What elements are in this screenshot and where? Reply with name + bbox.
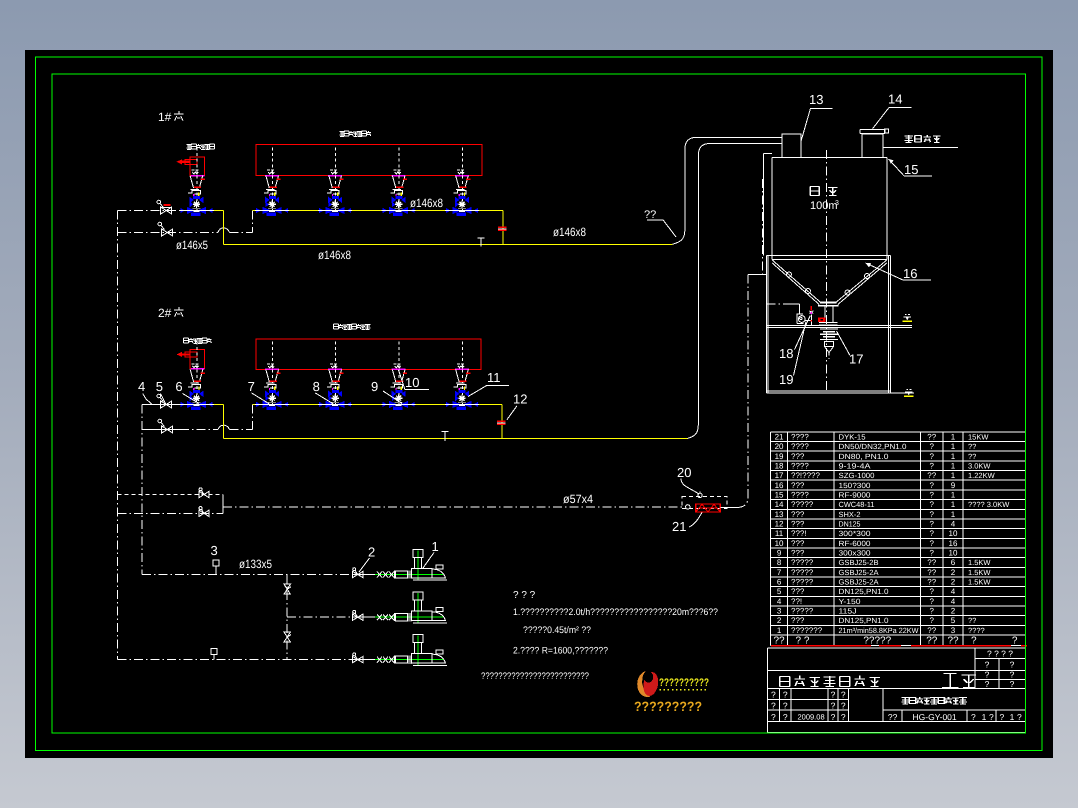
svg-text:?: ? — [831, 700, 836, 710]
svg-text:17: 17 — [775, 471, 784, 480]
svg-text:?????0.45t/m² ??: ?????0.45t/m² ?? — [523, 625, 591, 636]
svg-text:19: 19 — [775, 452, 784, 461]
svg-text:100m: 100m — [810, 200, 838, 212]
pipe yellow row2 manifold — [252, 403, 502, 405]
label 2#炉 — [158, 306, 183, 320]
svg-text:ø133x5: ø133x5 — [239, 557, 272, 571]
wire pump line 2 — [287, 616, 352, 618]
svg-text:2: 2 — [951, 568, 956, 577]
svg-text:6: 6 — [951, 558, 956, 567]
hopper H2-2 with discharge valves — [318, 341, 352, 410]
silo label 灰库 — [810, 187, 837, 196]
svg-text:???: ??? — [791, 452, 805, 461]
svg-text:9: 9 — [371, 379, 378, 394]
svg-text:??: ?? — [644, 209, 656, 221]
svg-text:1: 1 — [951, 452, 956, 461]
svg-text:12: 12 — [775, 520, 784, 529]
silo discharge flange — [818, 303, 839, 306]
svg-text:ø146x5: ø146x5 — [176, 238, 208, 252]
svg-text:GSBJ25-2B: GSBJ25-2B — [839, 558, 879, 567]
pipe yellow solo outlet to downleg — [214, 211, 224, 245]
callout 20 — [677, 465, 699, 494]
silo label 100m3 — [810, 200, 839, 212]
magenta liner under box row2 — [392, 368, 406, 370]
svg-text:20: 20 — [677, 465, 691, 480]
hopper group box row1 (red) — [256, 144, 482, 175]
pipe yellow row2 downleg — [501, 404, 503, 438]
silo centerline — [826, 150, 828, 390]
svg-text:?: ? — [841, 700, 846, 710]
svg-text:?: ? — [930, 616, 935, 625]
svg-text:1: 1 — [951, 462, 956, 471]
svg-text:9-19-4A: 9-19-4A — [839, 462, 871, 471]
svg-text:??: ?? — [773, 635, 785, 646]
svg-text:21: 21 — [672, 519, 686, 534]
svg-text:18: 18 — [775, 462, 784, 471]
cone aeration nozzles (circles) — [787, 272, 870, 295]
svg-text:?: ? — [1012, 635, 1018, 646]
svg-text:?: ? — [989, 712, 994, 722]
svg-text:15: 15 — [775, 491, 784, 500]
svg-text:??: ?? — [927, 626, 936, 635]
wire discharge air line (dash-dot x=747.9 down to feeder) — [739, 275, 748, 508]
svg-text:??: ?? — [888, 712, 898, 722]
svg-text:1: 1 — [432, 539, 439, 554]
svg-text:??: ?? — [968, 616, 976, 625]
valve V-r1a with flag — [157, 200, 172, 214]
elevation marker (platform) — [903, 314, 913, 322]
valve V-r2b with flag — [158, 419, 173, 433]
svg-text:??!????: ??!???? — [791, 471, 820, 480]
svg-text:16: 16 — [949, 539, 958, 548]
svg-text:10: 10 — [405, 375, 419, 390]
svg-text:10: 10 — [949, 549, 958, 558]
small red box + arrow row2 — [177, 352, 198, 357]
wire bypass dashed line y=494.5 — [117, 494, 223, 496]
company logo flame — [637, 671, 660, 698]
title block texts — [771, 690, 1022, 722]
silo skirt ring — [766, 255, 890, 259]
callout 11 — [468, 370, 509, 397]
pipe yellow row2 conveying line — [224, 438, 688, 440]
hopper group box row2 (red) — [256, 339, 481, 369]
svg-text:DYK-15: DYK-15 — [839, 433, 866, 442]
valve V-r2a with flag — [157, 394, 172, 408]
svg-text:?: ? — [841, 690, 846, 700]
wire pump line 3 — [117, 659, 352, 661]
svg-text:2009.08: 2009.08 — [798, 713, 825, 722]
svg-text:1: 1 — [982, 712, 987, 722]
svg-text:4: 4 — [138, 379, 145, 394]
svg-text:? ?: ? ? — [796, 635, 810, 646]
svg-text:??!: ??! — [791, 597, 802, 606]
hopper H1-0 (economizer) with discharge valves — [179, 148, 213, 217]
svg-text:2: 2 — [951, 607, 956, 616]
svg-text:2#: 2# — [158, 306, 172, 320]
rotary feeder (red) — [696, 504, 721, 512]
svg-text:???????: ??????? — [791, 626, 823, 635]
border inner green frame — [52, 74, 1026, 733]
callout 14 — [873, 92, 912, 129]
svg-text:18: 18 — [779, 346, 793, 361]
wire crossover hump over yellow riser — [218, 228, 230, 232]
elevation marker (ground) — [904, 389, 914, 397]
magenta liner under box — [455, 175, 469, 177]
gauge G2 — [211, 648, 217, 659]
svg-text:DN80, PN1.0: DN80, PN1.0 — [839, 452, 889, 461]
svg-text:4: 4 — [951, 587, 956, 596]
hopper H2-0 (economizer) with discharge valves — [180, 341, 214, 410]
svg-text:1.5KW: 1.5KW — [968, 558, 991, 567]
svg-text:?????: ????? — [791, 500, 814, 509]
label row2 hopper group (tiny) — [334, 324, 371, 329]
callout ?? (riser) — [644, 209, 676, 237]
svg-text:??: ?? — [926, 635, 938, 646]
svg-text:?: ? — [930, 500, 935, 509]
svg-text:???: ??? — [791, 510, 805, 519]
svg-text:?: ? — [930, 462, 935, 471]
feeder inlet valve (circle) — [686, 505, 690, 509]
svg-text:13: 13 — [809, 92, 823, 107]
wire feeder outlet — [720, 506, 739, 508]
label project name 热电站气力输灰 — [779, 676, 880, 687]
svg-text:????: ???? — [791, 462, 809, 471]
svg-text:1.5KW: 1.5KW — [968, 568, 991, 577]
small red box + arrow row1 — [177, 159, 198, 164]
svg-text:????: ???? — [791, 442, 809, 451]
magenta liner under box — [392, 175, 406, 177]
callout 16 — [866, 263, 932, 281]
wire dashdot line y=513.3 — [117, 512, 223, 514]
level instrument stem — [809, 306, 813, 325]
svg-text:?: ? — [930, 529, 935, 538]
wire pump cross header x=287.2 — [286, 575, 288, 660]
svg-text:GSBJ25-2A: GSBJ25-2A — [839, 578, 879, 587]
valve V-x2 (vertical) — [284, 632, 291, 642]
svg-text:?????????: ????????? — [634, 699, 702, 714]
svg-text:13: 13 — [775, 510, 784, 519]
svg-text:1: 1 — [1010, 712, 1015, 722]
pipe yellow row1 manifold downleg — [502, 211, 504, 245]
svg-text:1: 1 — [951, 471, 956, 480]
wire jumper y=274.7 — [748, 274, 766, 276]
svg-text:6: 6 — [777, 578, 782, 587]
svg-text:?????????????????????????: ????????????????????????? — [481, 671, 589, 682]
svg-text:2: 2 — [368, 545, 375, 560]
svg-text:??: ?? — [927, 558, 936, 567]
svg-text:15: 15 — [904, 162, 918, 177]
svg-text:300x300: 300x300 — [839, 549, 871, 558]
hopper H1-3 with discharge valves — [382, 148, 416, 217]
wire riser to manifold (dash-dot vertical x=252.4) — [251, 211, 253, 233]
wire riser x=252.4 row2 — [251, 404, 253, 429]
svg-text:? ? ? ?: ? ? ? ? — [987, 649, 1013, 659]
svg-text:???: ??? — [791, 481, 805, 490]
BOM header row — [773, 635, 1017, 646]
svg-text:1.5KW: 1.5KW — [968, 578, 991, 587]
valve V-x1 (vertical) — [284, 584, 291, 594]
svg-text:14: 14 — [888, 92, 902, 107]
callout 1 — [423, 539, 439, 568]
callout 18 — [779, 316, 810, 362]
callout 6 — [175, 379, 199, 404]
wire row2 header line start corner x=142 — [142, 403, 214, 405]
callout 12 — [507, 392, 527, 420]
pipe riser from row1 line to silo inlet — [673, 137, 783, 244]
magenta liner solo row1 — [191, 175, 205, 177]
svg-text:?: ? — [930, 597, 935, 606]
svg-text:???: ??? — [791, 520, 805, 529]
gauge G1 — [213, 560, 219, 575]
svg-text:12: 12 — [513, 392, 527, 407]
svg-text:4: 4 — [951, 520, 956, 529]
svg-text:?: ? — [1000, 712, 1005, 722]
svg-text:8: 8 — [777, 558, 782, 567]
svg-text:?????: ????? — [791, 558, 814, 567]
svg-text:5: 5 — [777, 587, 782, 596]
callout 4 — [138, 379, 152, 404]
wire connector x=223 — [222, 495, 224, 514]
svg-text:2: 2 — [777, 616, 782, 625]
callout 19 — [779, 322, 806, 388]
svg-text:3: 3 — [951, 626, 956, 635]
svg-text:???: ??? — [791, 587, 805, 596]
wire row1 bypass line (dash-dot) y=232.3 — [117, 231, 218, 233]
svg-text:17: 17 — [849, 352, 863, 367]
svg-text:?: ? — [831, 690, 836, 700]
svg-text:10: 10 — [949, 529, 958, 538]
svg-text:??: ?? — [968, 442, 976, 451]
BOM table texts — [775, 433, 1011, 635]
wire air line upper (dash-dot x=762.5) — [762, 179, 764, 275]
svg-text:3: 3 — [211, 543, 218, 558]
wire row1 solo hopper outlet (white) — [186, 210, 214, 212]
title block grid — [768, 648, 1026, 733]
svg-text:RF-6000: RF-6000 — [839, 539, 871, 548]
orifice fitting row2 (red flanges) — [497, 421, 506, 424]
svg-text:ø57x4: ø57x4 — [563, 492, 593, 506]
wire row1 header line (dash-dot) y=210.5 — [117, 210, 186, 212]
svg-text:?: ? — [783, 712, 788, 722]
conveying pump P1 with inlet valve — [352, 550, 447, 581]
svg-text:Y-150: Y-150 — [839, 597, 861, 606]
svg-text:9: 9 — [777, 549, 782, 558]
callout 10 — [399, 370, 430, 390]
hopper H1-1 with discharge valves — [255, 148, 289, 217]
callout 9 — [371, 379, 402, 404]
svg-text:?????: ????? — [863, 635, 891, 646]
label 1#炉 — [158, 110, 183, 124]
svg-text:DN50/DN32,PN1.0: DN50/DN32,PN1.0 — [839, 442, 907, 451]
pipe back-blow air line — [883, 146, 958, 148]
svg-text:?: ? — [930, 587, 935, 596]
svg-text:?: ? — [1017, 712, 1022, 722]
svg-text:150?300: 150?300 — [839, 481, 871, 490]
svg-text:GSBJ25-2A: GSBJ25-2A — [839, 568, 879, 577]
valve V-byp1 — [199, 488, 209, 498]
svg-text:1: 1 — [951, 491, 956, 500]
svg-text:HG-GY-001: HG-GY-001 — [913, 712, 957, 722]
svg-text:RF-9000: RF-9000 — [839, 491, 871, 500]
svg-text:?: ? — [831, 712, 836, 722]
svg-text:?????: ????? — [791, 578, 814, 587]
svg-text:6: 6 — [175, 379, 182, 394]
callout 7 — [248, 379, 270, 404]
svg-text:???!: ???! — [791, 529, 807, 538]
label 反吹气源 — [904, 135, 940, 142]
svg-text:?: ? — [930, 481, 935, 490]
svg-text:4: 4 — [777, 597, 782, 606]
red separator dashes — [771, 645, 1027, 647]
logo company name (yellow) — [659, 677, 709, 690]
svg-text:9: 9 — [951, 481, 956, 490]
svg-text:2: 2 — [951, 578, 956, 587]
callout 21 — [672, 513, 702, 535]
svg-text:?: ? — [971, 635, 977, 646]
svg-text:??: ?? — [927, 568, 936, 577]
flexible bellows connector — [820, 329, 838, 359]
silo body 灰库 — [772, 158, 887, 260]
svg-text:?: ? — [985, 679, 990, 689]
fitting red cap above valve — [162, 205, 172, 208]
svg-text:ø146x8: ø146x8 — [553, 225, 586, 239]
svg-text:?: ? — [783, 700, 788, 710]
label drawing title 气力除灰工艺流程图 — [901, 697, 966, 704]
svg-text:?: ? — [985, 660, 990, 670]
valve V-byp2 — [199, 507, 209, 517]
svg-text:?: ? — [930, 510, 935, 519]
magenta liner under box row2 — [455, 368, 469, 370]
svg-text:16: 16 — [775, 481, 784, 490]
wire pump line 1 — [142, 574, 352, 576]
svg-text:4: 4 — [951, 597, 956, 606]
nozzle 14 flange cap — [860, 129, 889, 133]
svg-text:1: 1 — [951, 433, 956, 442]
svg-text:5: 5 — [156, 379, 163, 394]
conveying pump P2 with inlet valve — [352, 592, 447, 623]
svg-text:15KW: 15KW — [968, 433, 989, 442]
svg-text:?: ? — [771, 712, 776, 722]
svg-text:?: ? — [783, 690, 788, 700]
callout 2 — [359, 545, 375, 573]
notes line 2 — [523, 625, 591, 636]
svg-text:??: ?? — [968, 452, 976, 461]
callout 8 — [313, 379, 334, 404]
wire second left header (dash-dot vertical x=142) — [141, 404, 143, 574]
svg-text:???: ??? — [791, 539, 805, 548]
svg-text:CWC48-11: CWC48-11 — [839, 500, 875, 509]
drain tee symbol on row1 line — [478, 238, 485, 247]
svg-text:1: 1 — [951, 500, 956, 509]
svg-text:20: 20 — [775, 442, 784, 451]
pipe yellow solo outlet row2 — [214, 404, 224, 438]
svg-text:?: ? — [930, 491, 935, 500]
svg-text:?: ? — [1010, 660, 1015, 670]
svg-text:19: 19 — [779, 372, 793, 387]
svg-text:? ? ?: ? ? ? — [513, 590, 536, 601]
svg-text:16: 16 — [903, 266, 917, 281]
pipe riser from row2 line to silo inlet — [688, 144, 782, 439]
feeder vent valve (circle) — [698, 492, 702, 498]
svg-text:1: 1 — [951, 510, 956, 519]
wire bypass to manifold riser row2 — [230, 429, 253, 431]
svg-text:?: ? — [1010, 670, 1015, 680]
svg-text:21: 21 — [775, 433, 784, 442]
callout 5 — [156, 379, 166, 404]
svg-text:SHX-2: SHX-2 — [839, 510, 861, 519]
label solo hopper row2 (tiny) — [184, 338, 212, 343]
svg-text:????: ???? — [791, 433, 809, 442]
svg-text:??: ?? — [927, 471, 936, 480]
feeder isolation box (dashed) — [682, 497, 727, 509]
svg-text:SZG-1000: SZG-1000 — [839, 471, 875, 480]
svg-text:???? 3.0KW: ???? 3.0KW — [968, 500, 1010, 509]
pipe yellow row1 conveying line to silo — [224, 243, 673, 245]
svg-text:3: 3 — [835, 200, 839, 207]
svg-text:?: ? — [841, 712, 846, 722]
wire ash unloading line ø57x4 to feeder — [223, 506, 682, 508]
hopper H2-3 with discharge valves — [382, 341, 416, 410]
title block small cells line fix — [883, 709, 1025, 711]
svg-text:??????????: ?????????? — [659, 677, 709, 689]
fluidizer blower (circle) — [797, 314, 812, 324]
BOM table grid — [771, 432, 1026, 645]
svg-text:115J: 115J — [839, 607, 857, 616]
right header ? ? ? ? — [985, 649, 1015, 690]
svg-text:ø146x8: ø146x8 — [410, 196, 443, 210]
svg-text:??: ?? — [927, 578, 936, 587]
svg-text:1.22KW: 1.22KW — [968, 471, 996, 480]
svg-text:5: 5 — [951, 616, 956, 625]
ground lines — [766, 391, 914, 393]
hopper H2-4 with discharge valves — [445, 341, 479, 410]
callout 13 — [801, 92, 832, 141]
svg-text:11: 11 — [487, 370, 501, 385]
economizer hopper red box row2 — [190, 350, 205, 369]
hopper H2-1 with discharge valves — [255, 341, 289, 410]
svg-text:DN125: DN125 — [839, 520, 861, 529]
svg-text:300*300: 300*300 — [839, 529, 871, 538]
svg-text:8: 8 — [313, 379, 320, 394]
svg-text:?: ? — [930, 607, 935, 616]
svg-text:?????: ????? — [791, 568, 814, 577]
wire main left header (dash-dot vertical x=117.3) — [116, 211, 118, 660]
svg-text:?: ? — [930, 549, 935, 558]
magenta liner under box row2 — [265, 368, 279, 370]
svg-text:?: ? — [930, 442, 935, 451]
wire fluidizer branch y=304.2 — [766, 304, 799, 314]
magenta liner under box — [265, 175, 279, 177]
magenta liner under box row2 — [328, 368, 342, 370]
svg-text:3.0KW: 3.0KW — [968, 462, 991, 471]
drain tee row2 — [442, 431, 449, 440]
silo downcomer at left wall — [764, 153, 772, 255]
wire row2 bypass line y=429.5 — [142, 429, 218, 431]
silo cone walls — [772, 260, 887, 305]
svg-text:7: 7 — [248, 379, 255, 394]
discharge lower flange — [819, 323, 838, 326]
wire crossover hump row2 — [218, 425, 230, 429]
svg-text:?: ? — [985, 670, 990, 680]
platform floor lines — [766, 325, 912, 327]
hopper H1-2 with discharge valves — [318, 148, 352, 217]
svg-text:14: 14 — [775, 500, 784, 509]
label row1 hopper group (tiny) — [339, 131, 371, 136]
svg-text:1.??????????2.0t/h????????????: 1.??????????2.0t/h?????????????????20m??… — [513, 607, 718, 618]
svg-text:10: 10 — [775, 539, 784, 548]
conveying pump P3 with inlet valve — [352, 635, 447, 666]
magenta liner solo row2 — [191, 368, 205, 370]
